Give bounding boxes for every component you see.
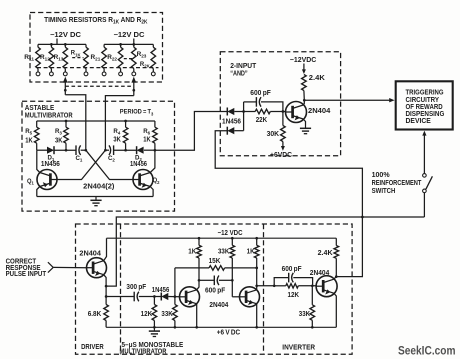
Q4 emitter wire (196, 304, 198, 328)
junction dot on left selector (64, 89, 67, 92)
junction dots on right rail (119, 43, 122, 46)
svg-text:OF REWARD: OF REWARD (406, 104, 443, 111)
resistor 6.8K (105, 297, 107, 305)
Q4 collector column (198, 258, 200, 286)
ellipsis dashes right group (124, 58, 132, 60)
wire 300pF to 12K node (139, 296, 155, 298)
resistor R4 3K (125, 121, 127, 127)
resistor 12K (inverter) (274, 285, 286, 287)
svg-text:DEVICE: DEVICE (406, 118, 432, 125)
resistor R2K (151, 47, 156, 68)
svg-text:1N456: 1N456 (152, 287, 170, 294)
wire switch down to reinforcement line (423, 193, 425, 217)
timing resistor selector box (30, 13, 163, 83)
feedback wire inverter output to AND input 2 (215, 131, 362, 277)
svg-text:300 pF: 300 pF (126, 284, 146, 291)
Q5 collector column (256, 258, 258, 286)
resistor 33K (Q4 base) (174, 297, 176, 305)
Q2 collector wire (150, 150, 155, 172)
svg-text:33K: 33K (161, 311, 172, 318)
svg-text:33K: 33K (299, 311, 310, 318)
selector dashed line (37, 67, 159, 69)
svg-text:−12 VDC: −12 VDC (218, 230, 243, 237)
wire R6 node to D2 (144, 149, 155, 151)
svg-text:R11: R11 (24, 54, 34, 63)
svg-text:3K: 3K (113, 136, 121, 143)
Q5 collector wire (256, 286, 258, 290)
svg-text:PULSE INPUT: PULSE INPUT (6, 271, 47, 278)
AND ground (305, 125, 307, 129)
wire column to 600pF (244, 101, 257, 103)
junction dot 33K top (231, 237, 234, 240)
node B junction dot (104, 149, 107, 152)
wire diode1 to junction column (234, 111, 243, 113)
svg-text:+6VDC: +6VDC (270, 152, 292, 159)
supply tick left group (56, 39, 58, 45)
separator driver|monostable (120, 224, 122, 354)
svg-text:2N404: 2N404 (310, 270, 330, 277)
svg-text:TRIGGERING: TRIGGERING (406, 90, 444, 97)
junction dots on left rail (50, 43, 53, 46)
junction dot R3 top (65, 120, 68, 123)
svg-text:ASTABLE: ASTABLE (25, 105, 55, 112)
svg-text:R22: R22 (107, 54, 117, 63)
+6V rail (bottom) (106, 326, 336, 328)
svg-text:2N404: 2N404 (79, 250, 101, 257)
node A junction dot (84, 149, 87, 152)
transistor Q1 2N404 (37, 170, 57, 190)
svg-text:CIRCUITRY: CIRCUITRY (406, 97, 440, 104)
wire astable output to AND input 1 (155, 112, 227, 151)
svg-text:“AND”: “AND” (230, 70, 248, 77)
supply tick right group (133, 39, 135, 45)
wire to 15K (175, 267, 209, 269)
wire selector-right to C2 node (105, 96, 133, 151)
U1 emitter wire (303, 119, 305, 125)
resistor R12 (49, 47, 54, 68)
+6VDC arrow (AND) (281, 146, 285, 151)
diode D2 1N456 (137, 147, 144, 154)
wire diode2 to junction column (234, 130, 243, 132)
ellipsis dashes left group (72, 57, 83, 59)
transistor Q4 2N404 (180, 287, 200, 307)
svg-text:Q2: Q2 (153, 177, 160, 186)
svg-text:15K: 15K (209, 258, 221, 265)
svg-text:C1: C1 (76, 155, 83, 164)
supply arrow into 2.4K (303, 64, 305, 70)
Q3 emitter wire (104, 275, 106, 297)
inverter coupling wire (257, 285, 275, 287)
switch upper contact (423, 174, 427, 178)
transistor Q3 2N404 driver (87, 258, 107, 278)
collector junction dot (303, 99, 306, 102)
svg-text:Q1: Q1 (27, 178, 34, 187)
svg-text:SWITCH: SWITCH (372, 188, 396, 195)
junction dot on right selector (132, 89, 135, 92)
AND junction column (243, 102, 245, 131)
wire R5 node to D1 (37, 149, 47, 151)
Q6 emitter wire (334, 293, 337, 327)
svg-text:R4: R4 (113, 128, 120, 137)
svg-text:2N404: 2N404 (209, 302, 228, 309)
svg-text:600 pF: 600 pF (282, 266, 303, 273)
switch blade (426, 176, 433, 189)
dashed gang line between selector arrows (65, 85, 134, 87)
svg-text:C2: C2 (108, 155, 115, 164)
output terminals (36, 72, 40, 76)
svg-text:1K: 1K (188, 249, 196, 256)
Q1 emitter wire (37, 187, 40, 197)
svg-text:−12V DC: −12V DC (50, 32, 81, 39)
svg-text:2.4K: 2.4K (318, 250, 333, 257)
capacitor 300pF (133, 292, 135, 302)
svg-text:MULTIVIBRATOR: MULTIVIBRATOR (25, 112, 73, 119)
wire D1 to C1 (54, 149, 76, 151)
-12V rail right group (104, 43, 153, 45)
wire C2 to node B (105, 149, 109, 151)
Q6 collector wire (334, 277, 337, 280)
svg-text:R3: R3 (55, 128, 62, 137)
rail junction dots (153, 326, 156, 329)
svg-text:R21: R21 (91, 54, 101, 63)
capacitor C1 (75, 145, 77, 155)
svg-text:+6 V DC: +6 V DC (217, 329, 240, 336)
resistor 22K (244, 111, 256, 113)
svg-text:TIMING RESISTORS R1K AND R2K: TIMING RESISTORS R1K AND R2K (44, 17, 148, 26)
junction dot base/600pF (231, 279, 234, 282)
reinforcement wire (switch to driver emitter) (106, 217, 424, 286)
svg-text:PERIOD = T3: PERIOD = T3 (120, 109, 154, 118)
U1 collector wire (303, 100, 304, 105)
svg-text:600 pF: 600 pF (250, 90, 271, 97)
base junction dot (282, 110, 285, 113)
svg-text:33K: 33K (218, 249, 229, 256)
resistor R3 3K (65, 121, 67, 127)
capacitor 600pF (monostable) (199, 279, 214, 281)
capacitor 600pF (inverter) (274, 278, 288, 286)
cross-coupling wire node A to Q2 base (86, 150, 133, 179)
switch lower contact (423, 189, 427, 193)
junction dot 12K node (153, 295, 156, 298)
wire emitter to 300pF (106, 296, 134, 298)
resistor R13 (63, 47, 68, 68)
transistor Q6 2N404 inverter (316, 276, 337, 297)
resistor R23 (132, 47, 137, 68)
Q4 collector wire (197, 286, 199, 290)
svg-text:R12: R12 (40, 54, 50, 63)
svg-text:R23: R23 (137, 51, 147, 60)
input wire to driver base (53, 266, 86, 268)
junction dot 15K/collector (255, 267, 258, 270)
svg-text:12K: 12K (141, 311, 153, 318)
diode input 1 1N456 (227, 108, 234, 115)
node B dot at R6 bottom (154, 149, 157, 152)
junction dot 1K top (198, 237, 201, 240)
svg-text:1K: 1K (247, 249, 255, 256)
selector arrow to R13 terminal (63, 77, 68, 83)
capacitor C2 (113, 145, 115, 155)
diode D1 1N456 (47, 147, 54, 154)
svg-text:R6: R6 (143, 128, 150, 137)
Q3 collector wire to -12V rail (104, 238, 107, 261)
separator monostable|inverter (263, 224, 265, 354)
junction dot collector/600pF (198, 279, 201, 282)
astable top rail wire (37, 120, 155, 122)
-12V rail left group (38, 43, 86, 45)
junction dot R4 bottom (124, 149, 127, 152)
diode 1N456 (monostable trigger) (154, 296, 161, 298)
svg-text:100%: 100% (372, 172, 391, 179)
svg-text:MULTIVIBRATOR: MULTIVIBRATOR (120, 349, 167, 356)
junction dot 1K2 top (255, 237, 258, 240)
junction dot inverter RC input (273, 284, 276, 287)
svg-text:1K: 1K (143, 136, 151, 143)
svg-text:DRIVER: DRIVER (81, 344, 104, 351)
wire D2 to C2 (114, 149, 137, 151)
svg-text:2-INPUT: 2-INPUT (230, 63, 257, 70)
svg-text:R5: R5 (25, 128, 32, 137)
junction dot R4 top (124, 120, 127, 123)
wire 15K to Q5 collector column (225, 267, 257, 269)
driver / monostable / inverter box (76, 224, 353, 354)
transistor Q5 2N404 (240, 287, 260, 307)
svg-text:12K: 12K (288, 292, 300, 299)
svg-text:6.8K: 6.8K (88, 311, 102, 318)
wire Q4 base up to 15K (174, 268, 176, 297)
svg-text:REINFORCEMENT: REINFORCEMENT (372, 180, 422, 187)
astable emitter rail (37, 196, 153, 198)
resistor 2.4K (AND) (302, 75, 307, 91)
AND output wire to triggering box (304, 99, 390, 101)
junction dot Q4 base node (174, 295, 177, 298)
svg-text:1N456: 1N456 (222, 119, 241, 126)
Q2 emitter wire (150, 187, 153, 197)
junction dot inverter base (311, 284, 314, 287)
resistor R21 (102, 47, 107, 68)
svg-text:22K: 22K (256, 117, 268, 124)
resistor 33K (inverter base) (311, 286, 313, 305)
svg-text:2N404(2): 2N404(2) (83, 184, 114, 191)
wire switch to triggering box with arrow (422, 131, 426, 136)
svg-text:1N456: 1N456 (130, 161, 147, 168)
capacitor 600pF (AND) (255, 97, 257, 107)
selector arrow to R23 terminal (131, 77, 136, 83)
resistor 2.4K (inverter) (335, 238, 337, 245)
astable ground (95, 197, 97, 201)
wire 600pF to base column (261, 102, 283, 112)
svg-text:SeekIC.com: SeekIC.com (398, 344, 456, 358)
svg-text:3K: 3K (55, 138, 63, 145)
junction dot R3 bottom (65, 149, 68, 152)
resistor R22 (118, 47, 123, 68)
junction dot collector/inverter tap (255, 284, 258, 287)
junction dot reinforcement/feedback (361, 216, 364, 219)
svg-text:DISPENSING: DISPENSING (406, 111, 445, 118)
svg-text:2N404: 2N404 (308, 108, 330, 115)
svg-text:1N456: 1N456 (41, 161, 60, 168)
resistor R1K (84, 47, 89, 68)
svg-text:1K: 1K (25, 138, 33, 145)
Q1 collector wire (37, 150, 40, 172)
svg-text:600 pF: 600 pF (205, 288, 226, 295)
resistor R5 1K (36, 121, 38, 127)
junction dot inverter collector (335, 275, 338, 278)
Q5 base column (231, 258, 233, 297)
transistor U1 2N404 (AND) (286, 102, 307, 123)
astable multivibrator box (22, 101, 175, 211)
wire C1 to node A (81, 149, 86, 151)
svg-text:−12VDC: −12VDC (290, 57, 317, 64)
transistor Q2 2N404 (133, 170, 153, 190)
resistor 1K (Q5 load) (256, 238, 258, 245)
ground (bottom rail) (153, 327, 155, 331)
svg-text:2.4K: 2.4K (309, 75, 325, 82)
junction dot emitter/reinforcement (105, 285, 108, 288)
cross-coupling wire node B to Q1 base (57, 150, 105, 179)
resistor 12K (monostable) (153, 297, 155, 305)
resistor R11 (36, 47, 41, 68)
resistor 15K (209, 266, 225, 271)
input arrow (48, 262, 53, 267)
svg-text:INVERTER: INVERTER (282, 344, 315, 351)
-12 VDC rail (bottom) (107, 237, 337, 239)
resistor 30K (282, 112, 284, 126)
2-input AND gate box (220, 52, 340, 156)
svg-text:−12V DC: −12V DC (114, 32, 145, 39)
resistor R6 1K (154, 121, 156, 127)
resistor 1K (Q4 load) (198, 238, 200, 245)
svg-text:R13: R13 (54, 54, 64, 63)
triggering circuitry box (396, 81, 453, 129)
svg-text:30K: 30K (267, 131, 280, 138)
resistor 33K (Q5 base) (231, 238, 233, 245)
Q5 emitter wire (256, 304, 258, 328)
diode input 2 1N456 (227, 127, 234, 134)
wire selector-left to C1 node (65, 95, 86, 150)
junction dot emitter/coupling (105, 295, 108, 298)
